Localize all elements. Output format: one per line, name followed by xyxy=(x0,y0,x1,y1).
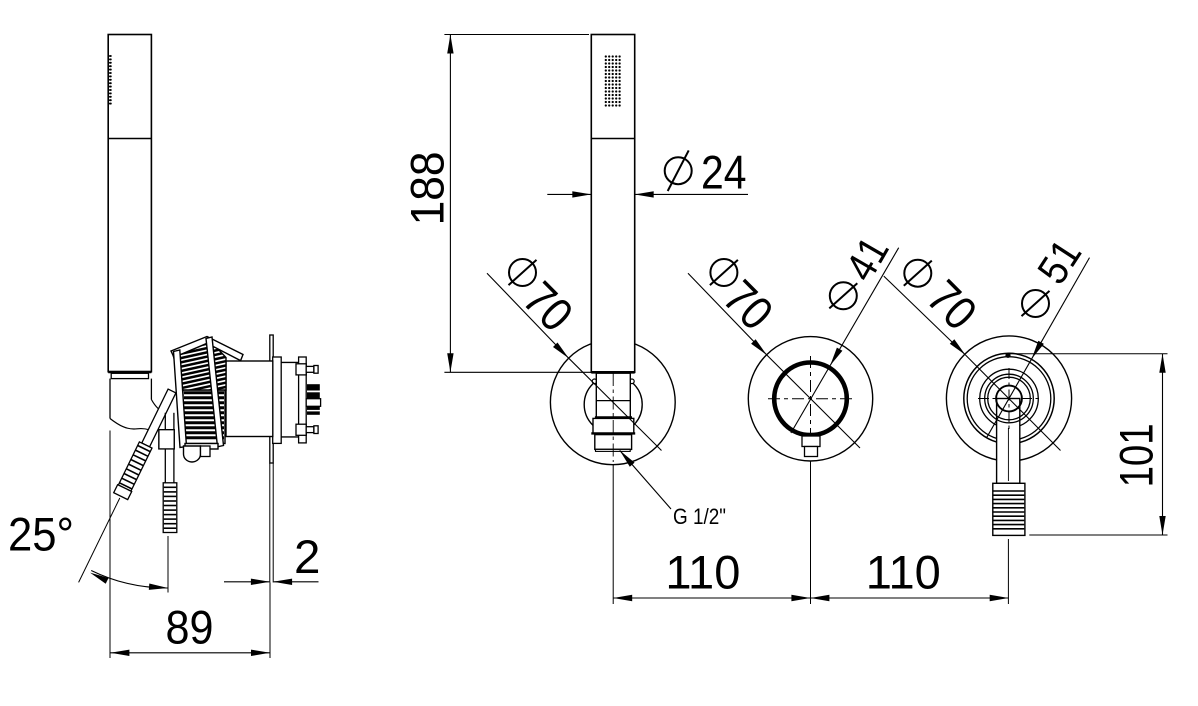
svg-text:G 1/2": G 1/2" xyxy=(673,504,726,529)
svg-text:24: 24 xyxy=(701,147,747,200)
svg-text:188: 188 xyxy=(402,151,455,225)
svg-text:110: 110 xyxy=(665,547,740,600)
svg-text:110: 110 xyxy=(866,547,941,600)
svg-text:2: 2 xyxy=(294,531,320,584)
svg-text:25°: 25° xyxy=(8,509,74,562)
svg-text:89: 89 xyxy=(166,602,214,655)
svg-text:101: 101 xyxy=(1110,423,1163,487)
